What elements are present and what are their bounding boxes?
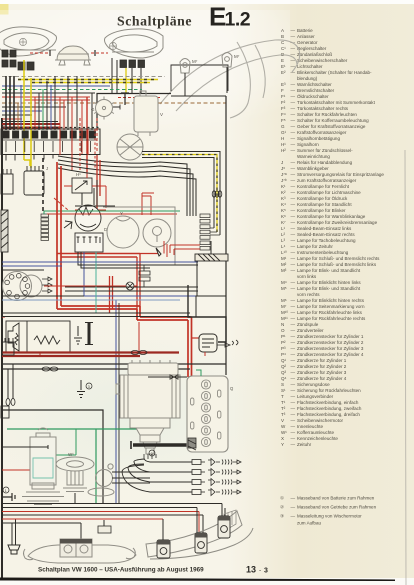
- car body outline top: [97, 94, 171, 131]
- coil feed red: [204, 352, 206, 356]
- svg-text:Zündkerzenstecker für Zylinder: Zündkerzenstecker für Zylinder 1: [297, 334, 364, 339]
- svg-text:—: —: [291, 442, 296, 447]
- svg-text:—: —: [291, 148, 296, 153]
- distributor towers: [144, 454, 156, 459]
- svg-text:T: T: [281, 394, 284, 399]
- svg-text:—: —: [291, 436, 296, 441]
- gauge red drop: [164, 241, 167, 257]
- svg-text:S¹: S¹: [281, 388, 286, 393]
- ignition switch D: [64, 205, 103, 252]
- engine cylinders: [191, 380, 221, 447]
- fuse elements: [6, 141, 91, 152]
- svg-text:—: —: [291, 412, 296, 417]
- svg-text:G: G: [281, 124, 285, 129]
- clock Y: [107, 216, 139, 248]
- svg-text:F: F: [281, 88, 284, 93]
- svg-text:Schaltpläne: Schaltpläne: [117, 14, 192, 29]
- ground wires to frame: [12, 519, 16, 545]
- svg-text:V: V: [160, 112, 163, 117]
- svg-text:Zündkerze für Zylinder 4: Zündkerze für Zylinder 4: [297, 376, 347, 381]
- svg-text:Stromversorgungsrelais für Ein: Stromversorgungsrelais für Einspritzanla…: [297, 172, 384, 177]
- page left edge line: [1, 118, 3, 578]
- svg-text:H: H: [281, 136, 284, 141]
- svg-text:—: —: [291, 268, 296, 273]
- wiper harness yellow w/ stripes: [142, 155, 217, 233]
- svg-text:13: 13: [246, 565, 256, 575]
- svg-text:Reglerschalter: Reglerschalter: [297, 46, 327, 51]
- spark plug lead P4: [150, 491, 192, 493]
- svg-text:Scheibenwischerschalter: Scheibenwischerschalter: [297, 58, 348, 63]
- green/red pair top: [44, 211, 180, 214]
- svg-text:—: —: [291, 244, 296, 249]
- svg-text:Instrumentenbeleuchtung: Instrumentenbeleuchtung: [297, 250, 349, 255]
- svg-text:1.2: 1.2: [225, 9, 251, 31]
- svg-text:M¹: M¹: [281, 256, 287, 261]
- svg-text:H²: H²: [281, 148, 286, 153]
- fuse box S: [1, 129, 100, 155]
- svg-text:—: —: [291, 34, 296, 39]
- blue drop to rear: [115, 300, 117, 503]
- backup light switch box: [1, 406, 9, 418]
- svg-text:T³: T³: [281, 412, 286, 417]
- svg-text:J: J: [46, 166, 48, 171]
- buzzer H2 box with horn symbol: [6, 321, 70, 353]
- sealed-beam headlight L2: [105, 29, 164, 58]
- svg-text:1: 1: [5, 489, 7, 493]
- red wires at H box: [64, 172, 106, 186]
- svg-text:zum Kraftstoffvorratsanzeiger: zum Kraftstoffvorratsanzeiger: [297, 178, 357, 183]
- svg-text:H¹: H¹: [281, 142, 286, 147]
- svg-text:—: —: [291, 196, 296, 201]
- svg-text:P³: P³: [281, 346, 286, 351]
- svg-text:—: —: [291, 82, 296, 87]
- wire bus blue 2: [2, 110, 42, 112]
- svg-text:F⁵: F⁵: [281, 118, 286, 123]
- svg-text:K¹: K¹: [281, 184, 286, 189]
- engine ground lug: [188, 438, 196, 450]
- spark plug lead P2: [150, 471, 192, 473]
- car body outline right side: [225, 96, 227, 375]
- svg-text:—: —: [291, 286, 296, 291]
- svg-text:B: B: [281, 34, 284, 39]
- svg-text:—: —: [291, 46, 296, 51]
- svg-text:Lampe für Rückfahrleuchte link: Lampe für Rückfahrleuchte links: [297, 310, 363, 315]
- svg-text:Schaltplan VW 1600 – USA-Ausfü: Schaltplan VW 1600 – USA-Ausführung ab A…: [38, 567, 204, 574]
- wire bus red 2: [24, 99, 90, 101]
- svg-text:—: —: [291, 220, 296, 225]
- svg-text:Kontrollampe für Öldruck: Kontrollampe für Öldruck: [297, 195, 348, 201]
- note 3 ground at wiper: [77, 380, 85, 398]
- svg-text:H¹: H¹: [76, 172, 81, 177]
- svg-text:—: —: [291, 262, 296, 267]
- svg-text:Scheibenwischermotor: Scheibenwischermotor: [297, 418, 343, 423]
- rear bumper left with lamps: [24, 539, 137, 563]
- steering column cable: [1, 210, 8, 252]
- svg-text:Signalhornbetätigung: Signalhornbetätigung: [297, 136, 340, 141]
- black line pair to rear: [2, 364, 226, 369]
- blue pair lower: [2, 262, 198, 266]
- spark plug lead P3: [150, 481, 192, 483]
- rear harness lines: [2, 503, 222, 505]
- red pair from strip bottom: [170, 245, 200, 255]
- indicator lamp K: [126, 282, 134, 290]
- svg-text:Kontrollampe für Standlicht: Kontrollampe für Standlicht: [297, 202, 352, 207]
- fuel gauge G1: [143, 219, 171, 247]
- svg-text:—: —: [291, 376, 296, 381]
- svg-text:Lampe für Zeituhr: Lampe für Zeituhr: [297, 244, 333, 249]
- speedometer terminals: [42, 277, 52, 293]
- svg-text:—: —: [291, 328, 296, 333]
- wires down left: [8, 364, 13, 399]
- wire bus brown dashed long: [2, 102, 226, 104]
- svg-text:Zündkerzenstecker für Zylinder: Zündkerzenstecker für Zylinder 3: [297, 346, 364, 351]
- svg-text:N: N: [281, 322, 284, 327]
- svg-text:Flachsteckverbindung, einfach: Flachsteckverbindung, einfach: [297, 400, 359, 405]
- ground symbol wiper upper: [74, 326, 82, 344]
- svg-text:P¹: P¹: [281, 334, 286, 339]
- distributor O: [0, 0, 1, 1]
- svg-text:Masseband von Batterie zum Rah: Masseband von Batterie zum Rahmen: [297, 496, 375, 501]
- black line pair above buzzer: [2, 313, 190, 317]
- svg-text:Anlasser: Anlasser: [297, 34, 315, 39]
- wiper harness band black 1: [142, 152, 220, 236]
- wires crossing fuse box: [30, 130, 32, 168]
- distributor O below: [136, 428, 164, 454]
- svg-text:L²: L²: [281, 232, 286, 237]
- dome light W bar: [195, 254, 228, 261]
- fuel tank sender G front: [94, 97, 114, 120]
- svg-text:Türkontaktschalter mit Summerk: Türkontaktschalter mit Summerkontakt: [297, 100, 376, 105]
- svg-text:Summer für Zündschlüssel-: Summer für Zündschlüssel-: [297, 148, 353, 153]
- svg-text:Zündverteiler: Zündverteiler: [297, 328, 324, 333]
- fuse box terminals: [3, 131, 96, 139]
- svg-text:J⁷ᵇ: J⁷ᵇ: [281, 178, 287, 183]
- svg-text:—: —: [291, 178, 296, 183]
- svg-text:—: —: [291, 130, 296, 135]
- svg-text:—: —: [291, 208, 296, 213]
- svg-text:M²: M²: [281, 262, 287, 267]
- svg-text:—: —: [291, 142, 296, 147]
- connector strip T right: [200, 214, 210, 250]
- svg-text:-: -: [259, 567, 261, 574]
- svg-text:Zeituhr: Zeituhr: [297, 442, 312, 447]
- headlight L2 wires down: [112, 58, 141, 93]
- horn H1 feed wires red: [30, 52, 108, 54]
- svg-text:G: G: [91, 107, 95, 112]
- svg-text:L³: L³: [281, 238, 286, 243]
- fuel sender G canister: [22, 428, 64, 505]
- coil condenser lead: [217, 340, 238, 347]
- svg-text:Q³: Q³: [281, 370, 287, 375]
- engine block with plug towers: [187, 376, 228, 452]
- svg-text:—: —: [291, 94, 296, 99]
- svg-text:—: —: [291, 334, 296, 339]
- wire bus black 3: [2, 114, 32, 116]
- svg-text:—: —: [291, 238, 296, 243]
- cluster wires to connector strip: [65, 287, 198, 291]
- svg-text:E³: E³: [281, 82, 286, 87]
- svg-text:blendung): blendung): [297, 76, 318, 81]
- red jumper near relays: [75, 209, 106, 211]
- wiper harness band black 2: [142, 158, 214, 229]
- svg-text:—: —: [291, 370, 296, 375]
- svg-text:Warnlichtschalter: Warnlichtschalter: [297, 82, 332, 87]
- svg-text:Q¹: Q¹: [281, 358, 287, 363]
- svg-text:K⁶: K⁶: [281, 214, 286, 219]
- svg-text:Öldruckschalter: Öldruckschalter: [297, 93, 329, 99]
- svg-text:—: —: [291, 112, 296, 117]
- svg-text:Kontrollampe für Lichtmaschine: Kontrollampe für Lichtmaschine: [297, 190, 361, 195]
- svg-text:—: —: [291, 226, 296, 231]
- svg-text:2: 2: [151, 452, 153, 456]
- sealed-beam headlight L1: [0, 27, 57, 56]
- page bottom edge line: [0, 578, 395, 582]
- tail lamp M4: [157, 540, 170, 558]
- svg-text:M⁷: M⁷: [234, 54, 240, 59]
- svg-text:—: —: [291, 124, 296, 129]
- svg-text:Kontrollampe für Zweikreisbrem: Kontrollampe für Zweikreisbremsanlage: [297, 220, 378, 225]
- wiper motor V: [117, 91, 158, 160]
- red pair mid horizontal: [57, 254, 140, 258]
- svg-text:K⁵: K⁵: [281, 208, 286, 213]
- svg-text:L⁴: L⁴: [281, 244, 286, 249]
- tail lamp M6: [218, 516, 230, 538]
- svg-text:Schalter für Rückfahrleuchten: Schalter für Rückfahrleuchten: [297, 112, 357, 117]
- svg-text:J⁷ᵃ: J⁷ᵃ: [281, 172, 287, 177]
- svg-text:M⁷: M⁷: [192, 59, 198, 64]
- svg-text:W¹: W¹: [281, 430, 287, 435]
- svg-text:Lampe für Seitenmarkierung vor: Lampe für Seitenmarkierung vorn: [297, 304, 365, 309]
- ignition coil N: [199, 334, 217, 352]
- svg-text:Lampe für Tachobeleuchtung: Lampe für Tachobeleuchtung: [297, 238, 356, 243]
- speedometer with warning lamps: [3, 272, 43, 301]
- ground strap 1: [2, 493, 15, 501]
- svg-text:vorn links: vorn links: [297, 274, 317, 279]
- svg-text:Innenleuchte: Innenleuchte: [297, 424, 324, 429]
- red pair to dash: [57, 306, 140, 309]
- side marker lamp M7 right: [222, 53, 232, 94]
- svg-text:Lampe für Rückfahrleuchte rech: Lampe für Rückfahrleuchte rechts: [297, 316, 366, 321]
- svg-text:Signalhorn: Signalhorn: [297, 142, 319, 147]
- svg-text:X: X: [281, 436, 284, 441]
- svg-text:M⁷: M⁷: [281, 304, 287, 309]
- connector T near left lamp: [98, 526, 111, 533]
- red pair drop mid: [110, 276, 113, 313]
- svg-text:—: —: [291, 136, 296, 141]
- svg-text:Lampe für Blink- und Standlich: Lampe für Blink- und Standlicht: [297, 268, 361, 273]
- wire bus black 4: [2, 121, 58, 123]
- svg-text:E: E: [281, 58, 284, 63]
- svg-text:—: —: [291, 166, 296, 171]
- svg-text:Warnblinkgeber: Warnblinkgeber: [297, 166, 329, 171]
- windshield wiper sweep arcs: [160, 40, 300, 118]
- wire bus black: [2, 92, 95, 94]
- svg-text:Flachsteckverbindung, zweifach: Flachsteckverbindung, zweifach: [297, 406, 362, 411]
- svg-text:Lampe für Blinklicht hinten li: Lampe für Blinklicht hinten links: [297, 280, 361, 285]
- drops from ignition switch: [78, 252, 198, 268]
- drops to lamps: [81, 520, 104, 539]
- svg-text:F¹: F¹: [281, 94, 286, 99]
- wire bus green dashed: [2, 89, 142, 91]
- svg-text:W: W: [281, 424, 286, 429]
- svg-text:Flachsteckverbindung, dreifach: Flachsteckverbindung, dreifach: [297, 412, 360, 417]
- svg-text:—: —: [291, 406, 296, 411]
- svg-text:—: —: [291, 346, 296, 351]
- svg-text:Lampe für Schluß- und Bremslic: Lampe für Schluß- und Bremslicht links: [297, 262, 377, 267]
- svg-text:Masseleitung von Wischermotor: Masseleitung von Wischermotor: [297, 514, 362, 519]
- svg-text:Kraftstoffvorratsanzeiger: Kraftstoffvorratsanzeiger: [297, 130, 347, 135]
- svg-text:S: S: [3, 124, 6, 129]
- svg-text:—: —: [291, 388, 296, 393]
- yellow feeders: [24, 60, 31, 160]
- main red feed pair vertical: [57, 162, 61, 309]
- headlight L1 terminal blocks: [2, 50, 34, 70]
- svg-text:M⁵: M⁵: [281, 286, 287, 291]
- yellow wire into relay J: [24, 160, 30, 166]
- svg-text:Zündkerze für Zylinder 3: Zündkerze für Zylinder 3: [297, 370, 347, 375]
- svg-text:M⁶: M⁶: [281, 298, 287, 303]
- svg-text:Blinkerschalter (Schalter für: Blinkerschalter (Schalter für Handab-: [297, 70, 372, 75]
- spark plug lead P1: [150, 461, 192, 463]
- left edge connector box: [2, 338, 14, 355]
- svg-text:—: —: [291, 118, 296, 123]
- svg-text:Kontrollampe für Warnblinkanla: Kontrollampe für Warnblinkanlage: [297, 214, 366, 219]
- spark plug Q4: [208, 489, 241, 496]
- svg-text:K³: K³: [281, 196, 286, 201]
- spark plug Q1: [208, 459, 241, 466]
- svg-text:—: —: [291, 430, 296, 435]
- wire bus red 3: [2, 118, 22, 120]
- svg-text:—: —: [291, 418, 296, 423]
- svg-text:Zündkerze für Zylinder 2: Zündkerze für Zylinder 2: [297, 364, 347, 369]
- svg-text:—: —: [291, 496, 296, 501]
- spark plug Q3: [208, 479, 241, 486]
- wire bus blue: [2, 85, 110, 87]
- svg-text:Warneinrichtung: Warneinrichtung: [297, 154, 330, 159]
- dashboard cluster box: [103, 207, 175, 265]
- cluster T connectors: [139, 265, 150, 287]
- wiper switch E: [1, 169, 13, 194]
- red drop to main line: [138, 322, 140, 352]
- red dash wire to buzzer: [2, 317, 40, 357]
- svg-text:Sealed-Beam-Einsatz rechts: Sealed-Beam-Einsatz rechts: [297, 232, 355, 237]
- svg-text:—: —: [291, 364, 296, 369]
- svg-text:Bremslichtschalter: Bremslichtschalter: [297, 88, 335, 93]
- green corner wire: [7, 429, 158, 503]
- svg-text:—: —: [291, 394, 296, 399]
- svg-text:Y: Y: [281, 442, 284, 447]
- svg-text:M¹⁰: M¹⁰: [281, 310, 288, 315]
- svg-text:M⁴: M⁴: [281, 280, 287, 285]
- svg-text:—: —: [291, 304, 296, 309]
- svg-text:S: S: [281, 382, 284, 387]
- svg-text:M¹¹: M¹¹: [281, 316, 288, 321]
- generator C and starter B assembly: [116, 360, 180, 428]
- svg-text:Relais für Handabblendung: Relais für Handabblendung: [297, 160, 353, 165]
- svg-text:—: —: [291, 514, 296, 519]
- svg-text:J: J: [281, 160, 283, 165]
- svg-text:3: 3: [264, 568, 268, 575]
- svg-text:Zündspule: Zündspule: [297, 322, 319, 327]
- svg-text:—: —: [291, 160, 296, 165]
- svg-text:C¹: C¹: [281, 46, 286, 51]
- harness connectors: [212, 191, 222, 197]
- svg-text:Zündanlaßschloß: Zündanlaßschloß: [297, 52, 332, 57]
- svg-text:E¹: E¹: [281, 64, 286, 69]
- svg-text:—: —: [291, 280, 296, 285]
- svg-text:—: —: [291, 424, 296, 429]
- svg-text:Batterie: Batterie: [297, 28, 313, 33]
- license plate lamp X: [88, 464, 114, 496]
- svg-text:O: O: [281, 328, 285, 333]
- svg-text:K⁴: K⁴: [281, 202, 286, 207]
- headlight L2 terminal blocks: [120, 60, 145, 68]
- reflector hatch right end: [224, 510, 236, 530]
- horn control H box: [72, 178, 92, 193]
- red verticals right of fuse box: [97, 155, 100, 213]
- svg-text:Geber für Kraftstoffvorratsanz: Geber für Kraftstoffvorratsanzeige: [297, 124, 366, 129]
- svg-text:Lichtschalter: Lichtschalter: [297, 64, 323, 69]
- wire bus black 2: [2, 106, 66, 108]
- svg-text:Sicherung für Rückfahrleuchten: Sicherung für Rückfahrleuchten: [297, 388, 361, 393]
- svg-text:—: —: [291, 400, 296, 405]
- svg-text:Schalter für Kofferraumbeleuch: Schalter für Kofferraumbeleuchtung: [297, 118, 369, 123]
- wire bus red 1: [2, 96, 90, 98]
- red stubs near cluster top: [142, 193, 154, 215]
- dimming relay J: [24, 166, 44, 195]
- rear window box: [196, 261, 226, 317]
- green wire into sender: [56, 429, 76, 455]
- svg-text:F⁴: F⁴: [281, 112, 286, 117]
- svg-text:—: —: [291, 505, 296, 510]
- svg-text:—: —: [291, 358, 296, 363]
- suppressor bar: [88, 323, 91, 344]
- red dash under headlight R: [118, 97, 160, 99]
- svg-text:—: —: [291, 352, 296, 357]
- svg-text:P⁴: P⁴: [281, 352, 286, 357]
- svg-text:—: —: [291, 310, 296, 315]
- fuse box top wire ends: [2, 127, 100, 129]
- svg-text:Zündkerzenstecker für Zylinder: Zündkerzenstecker für Zylinder 4: [297, 352, 364, 357]
- svg-text:Y: Y: [120, 211, 123, 216]
- tail lamp M2: [195, 533, 207, 553]
- svg-text:J⁶: J⁶: [281, 166, 285, 171]
- svg-text:Kontrollampe für Fernlicht: Kontrollampe für Fernlicht: [297, 184, 350, 189]
- svg-text:—: —: [291, 28, 296, 33]
- wire bus yellow 2: [32, 82, 150, 84]
- svg-text:E²: E²: [281, 70, 286, 75]
- connector strip T left: [41, 214, 49, 240]
- svg-text:—: —: [291, 100, 296, 105]
- svg-text:vorn rechts: vorn rechts: [297, 292, 320, 297]
- connector on black line: [42, 367, 58, 371]
- svg-text:M³: M³: [281, 268, 287, 273]
- svg-text:—: —: [291, 382, 296, 387]
- luggage compartment lamp W1: [56, 457, 94, 492]
- svg-text:P²: P²: [281, 340, 286, 345]
- svg-text:G¹: G¹: [281, 130, 287, 135]
- svg-text:K⁷: K⁷: [281, 220, 286, 225]
- black feed down to coil: [188, 261, 226, 342]
- faint page tint zones: [0, 0, 1, 1]
- svg-text:—: —: [291, 256, 296, 261]
- generator lead with connectors: [148, 376, 187, 378]
- svg-text:Masseband von Getriebe zum Rah: Masseband von Getriebe zum Rahmen: [297, 505, 377, 510]
- svg-text:—: —: [291, 340, 296, 345]
- svg-text:F²: F²: [281, 100, 286, 105]
- side marker lamp M7 left: [180, 59, 190, 97]
- svg-text:—: —: [291, 88, 296, 93]
